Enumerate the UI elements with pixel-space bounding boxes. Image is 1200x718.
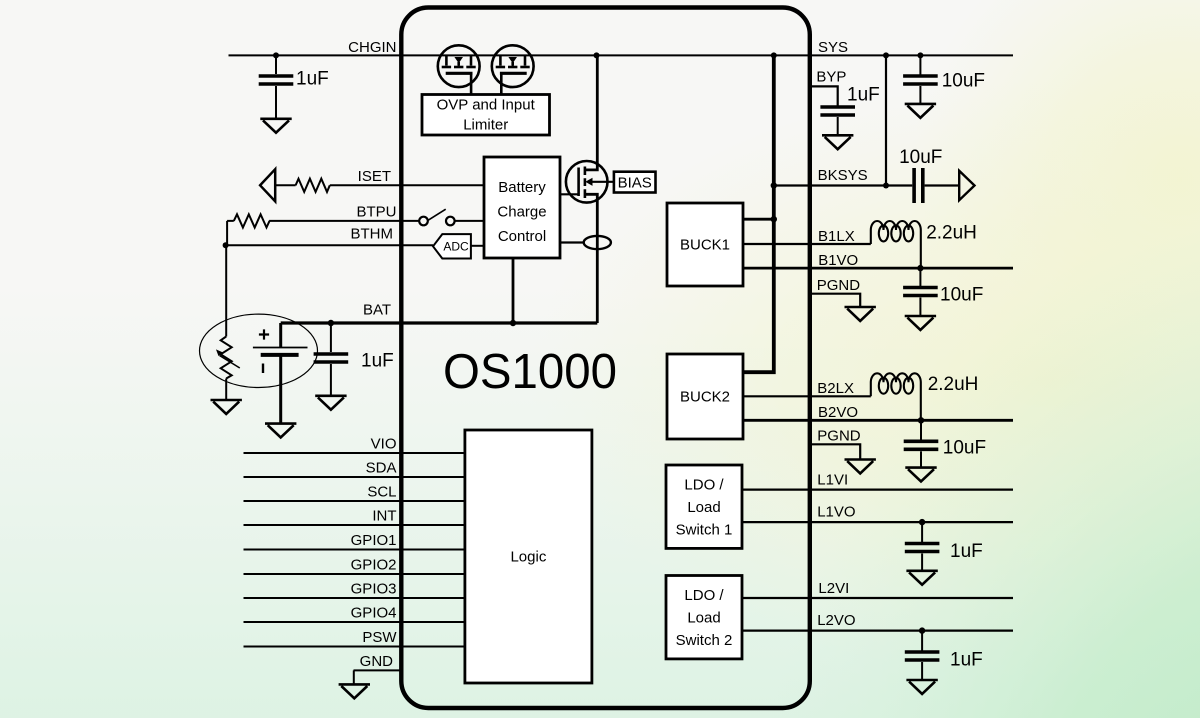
wire PGND2 <box>810 444 860 459</box>
wire box bottom to BAT <box>512 258 515 323</box>
thermistor RT <box>221 337 232 379</box>
wire BIAS fet source to BAT <box>585 194 597 323</box>
svg-text:B1LX: B1LX <box>818 228 855 245</box>
svg-text:10uF: 10uF <box>899 147 942 168</box>
svg-text:GPIO2: GPIO2 <box>351 557 397 574</box>
ground <box>339 684 370 698</box>
arrow BKSYS right <box>959 171 974 200</box>
wire BIAS fet drain <box>585 55 597 169</box>
svg-text:Load: Load <box>687 499 720 516</box>
svg-text:Switch 2: Switch 2 <box>676 632 733 649</box>
wire BAT <box>281 321 598 324</box>
ground <box>905 104 936 118</box>
svg-text:L2VO: L2VO <box>817 612 855 629</box>
svg-text:L1VI: L1VI <box>817 472 848 489</box>
svg-text:BAT: BAT <box>363 302 391 319</box>
svg-text:Control: Control <box>498 228 546 245</box>
node SYS cap junction <box>917 52 923 58</box>
svg-text:2.2uH: 2.2uH <box>928 374 979 395</box>
ground <box>906 571 937 585</box>
capacitor C-L2VO 1uF <box>921 631 923 652</box>
svg-text:OS1000: OS1000 <box>443 345 617 399</box>
wire ISET <box>275 184 484 186</box>
wire GPIO4 <box>244 621 465 623</box>
BIAS box <box>614 172 656 193</box>
svg-text:CHGIN: CHGIN <box>348 39 396 56</box>
svg-text:1uF: 1uF <box>847 85 880 106</box>
svg-text:B2VO: B2VO <box>818 404 858 421</box>
wire BTPU-BTHM link <box>226 221 228 245</box>
svg-text:ADC: ADC <box>443 240 469 254</box>
wire L1VI <box>742 489 1013 491</box>
svg-text:SDA: SDA <box>366 460 397 477</box>
wire ADC to box <box>471 245 484 247</box>
battery pack ellipse <box>200 314 318 387</box>
wire GPIO1 <box>244 549 465 551</box>
wire INT <box>244 524 465 526</box>
svg-text:1uF: 1uF <box>950 650 983 671</box>
BUCK2 block <box>667 354 743 439</box>
svg-text:Load: Load <box>687 610 720 627</box>
svg-text:VIO: VIO <box>371 436 397 453</box>
ground <box>845 460 876 474</box>
ground <box>822 135 853 149</box>
node BKSYS link junction <box>883 52 889 58</box>
svg-text:2.2uH: 2.2uH <box>926 223 977 244</box>
svg-text:ISET: ISET <box>358 168 391 185</box>
svg-text:B1VO: B1VO <box>818 252 858 269</box>
capacitor C-L1VO 1uF <box>921 522 923 543</box>
wire thermistor drop <box>225 245 227 336</box>
svg-text:BUCK1: BUCK1 <box>680 237 730 254</box>
wire BUCK1 input <box>743 218 774 221</box>
svg-text:Switch 1: Switch 1 <box>676 522 733 539</box>
svg-text:GND: GND <box>360 653 394 670</box>
Battery Charge Control block <box>484 157 560 258</box>
svg-text:1uF: 1uF <box>361 351 394 372</box>
wire BTPU <box>227 220 484 222</box>
wire B1LX <box>743 243 871 245</box>
svg-text:10uF: 10uF <box>942 71 985 92</box>
switch S1 <box>419 217 428 226</box>
ground <box>905 316 936 330</box>
svg-text:L1VO: L1VO <box>817 504 855 521</box>
resistor R-ISET <box>296 179 330 192</box>
svg-text:BTPU: BTPU <box>356 204 396 221</box>
node charge-control junction <box>510 320 516 326</box>
ground <box>906 680 937 694</box>
svg-text:Charge: Charge <box>497 203 546 220</box>
transistor Q1 (OVP fet left) <box>438 45 480 94</box>
svg-text:BUCK2: BUCK2 <box>680 389 730 406</box>
svg-text:LDO /: LDO / <box>684 477 724 494</box>
wire L2VO <box>742 629 1013 631</box>
internal supply bus <box>743 55 774 372</box>
svg-text:10uF: 10uF <box>943 438 986 459</box>
wire SCL <box>244 500 465 502</box>
ground <box>845 307 876 321</box>
svg-text:BIAS: BIAS <box>618 175 652 192</box>
wire BKSYS link <box>885 55 887 185</box>
inductor L1 2.2uH <box>871 221 921 268</box>
wire GPIO3 <box>244 597 465 599</box>
capacitor C-BKSYS 10uF series <box>914 168 923 203</box>
LDO Load Switch 1 block <box>666 465 742 548</box>
wire GND pin <box>354 669 404 671</box>
wire B1VO <box>743 267 1013 270</box>
wire B2LX <box>743 395 871 397</box>
ground <box>905 468 936 482</box>
capacitor C-BAT 1uF <box>330 323 332 352</box>
svg-text:B2LX: B2LX <box>817 380 854 397</box>
IC body OS1000 outline <box>401 8 810 709</box>
LDO Load Switch 2 block <box>666 576 742 659</box>
svg-text:BTHM: BTHM <box>351 226 394 243</box>
svg-text:GPIO3: GPIO3 <box>351 581 397 598</box>
battery BT1 <box>279 323 282 348</box>
svg-text:GPIO1: GPIO1 <box>351 532 397 549</box>
svg-text:1uF: 1uF <box>950 541 983 562</box>
wire PSW <box>244 646 465 648</box>
capacitor C-SYS 10uF <box>919 55 921 76</box>
node BTHM junction <box>223 242 229 248</box>
wire L2VI <box>742 597 1013 599</box>
svg-text:Limiter: Limiter <box>463 117 508 134</box>
svg-text:Battery: Battery <box>498 179 546 196</box>
svg-text:10uF: 10uF <box>940 285 983 306</box>
wire B2VO <box>743 419 1013 422</box>
svg-text:PGND: PGND <box>817 428 861 445</box>
svg-text:BKSYS: BKSYS <box>818 167 868 184</box>
transistor Q3 (BIAS fet) <box>560 161 614 203</box>
wire BKSYS <box>774 184 959 186</box>
ADC tag <box>433 234 471 258</box>
BUCK1 block <box>667 203 743 286</box>
resistor R-BTPU <box>234 214 270 227</box>
wire BYP <box>810 86 838 106</box>
capacitor C-CHGIN 1uF <box>275 55 277 74</box>
node BAT cap junction <box>328 320 334 326</box>
svg-text:LDO /: LDO / <box>684 587 724 604</box>
svg-text:INT: INT <box>372 508 396 525</box>
arrow ISET left <box>260 169 275 201</box>
node bus-BKSYS junction <box>771 182 777 188</box>
wire CHGIN-SYS rail <box>229 54 1014 56</box>
current source ellipse <box>584 236 611 249</box>
svg-text:BYP: BYP <box>816 69 846 86</box>
ground <box>260 119 291 133</box>
svg-text:GPIO4: GPIO4 <box>351 605 397 622</box>
Logic block <box>465 430 592 683</box>
svg-text:1uF: 1uF <box>296 69 329 90</box>
wire SDA <box>244 476 465 478</box>
wire GPIO2 <box>244 573 465 575</box>
svg-text:OVP and Input: OVP and Input <box>437 97 536 114</box>
ground <box>265 424 296 438</box>
node CHGIN cap junction <box>273 52 279 58</box>
svg-text:Logic: Logic <box>510 549 546 566</box>
node internal bus junction <box>771 52 777 58</box>
OVP and Input Limiter block <box>422 95 550 136</box>
capacitor C-B2VO 10uF <box>920 420 922 441</box>
transistor Q2 (OVP fet right) <box>492 45 534 94</box>
wire BTHM <box>226 244 433 246</box>
wire L1VO <box>742 521 1013 523</box>
ground <box>211 400 242 414</box>
svg-text:SCL: SCL <box>367 484 396 501</box>
svg-text:L2VI: L2VI <box>818 580 849 597</box>
wire PGND1 <box>810 294 860 307</box>
ground <box>315 396 346 410</box>
node BIAS fet drain junction <box>594 52 600 58</box>
wire VIO <box>244 452 465 454</box>
wire box to ellipse <box>560 241 584 243</box>
svg-text:SYS: SYS <box>818 39 848 56</box>
svg-text:PSW: PSW <box>362 629 397 646</box>
capacitor C-BYP 1uF <box>820 107 855 115</box>
svg-text:PGND: PGND <box>817 277 861 294</box>
inductor L2 2.2uH <box>871 373 921 420</box>
capacitor C-B1VO 10uF <box>919 268 921 287</box>
